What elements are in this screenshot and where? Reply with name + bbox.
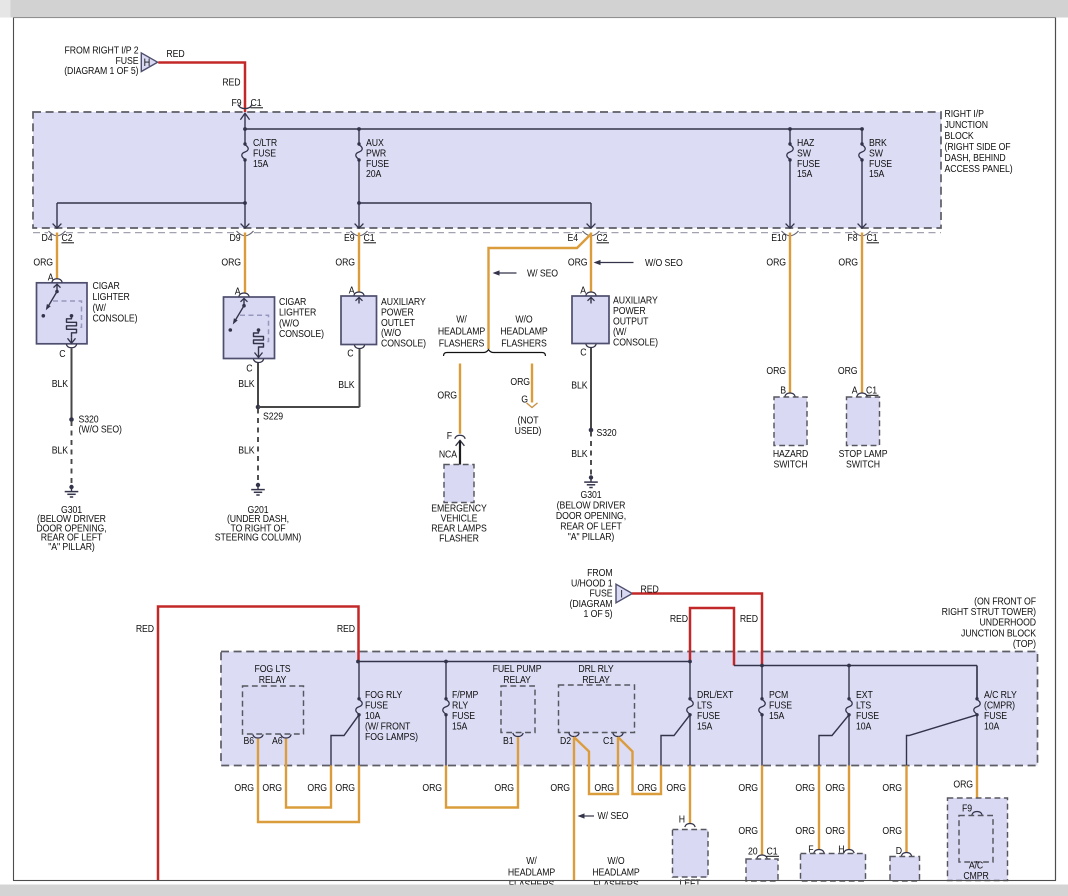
svg-text:SWITCH: SWITCH (774, 459, 808, 471)
svg-text:ORG: ORG (825, 825, 845, 837)
svg-text:C: C (246, 363, 252, 375)
svg-text:D2: D2 (560, 735, 571, 747)
svg-text:FLASHERS: FLASHERS (439, 338, 484, 350)
svg-text:ORG: ORG (437, 390, 457, 402)
svg-text:B1: B1 (503, 735, 514, 747)
svg-text:ORG: ORG (307, 782, 327, 794)
svg-text:S229: S229 (263, 411, 283, 423)
svg-text:15A: 15A (697, 721, 713, 733)
svg-text:HEADLAMP: HEADLAMP (438, 326, 485, 338)
svg-text:"A" PILLAR): "A" PILLAR) (568, 531, 615, 543)
svg-text:FLASHERS: FLASHERS (501, 338, 546, 350)
svg-text:I: I (620, 589, 622, 601)
svg-text:W/: W/ (526, 855, 537, 867)
svg-text:BLK: BLK (571, 380, 588, 392)
svg-text:S320: S320 (597, 427, 617, 439)
svg-text:10A: 10A (984, 721, 1000, 733)
svg-text:E10: E10 (771, 232, 786, 244)
svg-text:HEADLAMP: HEADLAMP (500, 326, 547, 338)
svg-text:H: H (679, 814, 685, 826)
svg-text:USED): USED) (515, 425, 542, 437)
svg-text:ORG: ORG (838, 257, 858, 269)
svg-text:CONSOLE): CONSOLE) (381, 338, 426, 350)
svg-text:ORG: ORG (594, 782, 614, 794)
svg-text:CONSOLE): CONSOLE) (613, 337, 658, 349)
svg-text:15A: 15A (253, 158, 269, 170)
svg-text:ORG: ORG (510, 376, 530, 388)
svg-text:20: 20 (748, 846, 758, 858)
svg-text:SWITCH: SWITCH (846, 459, 880, 471)
svg-text:ORG: ORG (795, 782, 815, 794)
svg-text:CONSOLE): CONSOLE) (279, 329, 324, 341)
svg-text:BLK: BLK (52, 445, 69, 457)
svg-text:ORG: ORG (550, 782, 570, 794)
svg-text:15A: 15A (452, 721, 468, 733)
svg-text:1 OF 5): 1 OF 5) (584, 609, 613, 621)
svg-text:ORG: ORG (335, 257, 355, 269)
svg-text:ORG: ORG (234, 782, 254, 794)
svg-text:W/ SEO: W/ SEO (598, 810, 629, 822)
svg-text:W/O: W/O (515, 314, 532, 326)
svg-text:H: H (144, 57, 151, 69)
svg-text:F8: F8 (847, 232, 857, 244)
svg-text:FOG LAMPS): FOG LAMPS) (365, 731, 418, 743)
svg-text:RED: RED (740, 613, 758, 625)
svg-text:ORG: ORG (882, 782, 902, 794)
svg-text:RED: RED (136, 623, 154, 635)
svg-text:(TOP): (TOP) (1013, 638, 1036, 650)
svg-text:NCA: NCA (439, 449, 458, 461)
svg-text:D4: D4 (41, 232, 53, 244)
svg-text:B6: B6 (244, 735, 255, 747)
svg-text:ORG: ORG (637, 782, 657, 794)
svg-text:ORG: ORG (568, 257, 588, 269)
svg-text:ORG: ORG (738, 825, 758, 837)
svg-text:W/ SEO: W/ SEO (527, 268, 558, 280)
svg-text:A6: A6 (272, 735, 283, 747)
svg-text:A: A (235, 286, 241, 298)
svg-text:BLK: BLK (238, 445, 255, 457)
svg-text:ORG: ORG (838, 365, 858, 377)
svg-text:"A" PILLAR): "A" PILLAR) (48, 541, 95, 553)
svg-text:RELAY: RELAY (582, 674, 610, 686)
svg-text:ORG: ORG (953, 779, 973, 791)
svg-text:BLK: BLK (338, 379, 355, 391)
svg-text:RELAY: RELAY (503, 674, 531, 686)
svg-text:W/O: W/O (607, 855, 624, 867)
svg-text:CONSOLE): CONSOLE) (93, 313, 138, 325)
svg-text:C: C (580, 347, 586, 359)
svg-text:15A: 15A (769, 710, 785, 722)
svg-text:HEADLAMP: HEADLAMP (592, 867, 639, 879)
svg-text:15A: 15A (869, 169, 885, 181)
svg-text:ORG: ORG (494, 782, 514, 794)
svg-text:ORG: ORG (262, 782, 282, 794)
svg-text:ORG: ORG (666, 782, 686, 794)
svg-text:15A: 15A (797, 169, 813, 181)
svg-text:F9: F9 (962, 803, 972, 815)
svg-text:C: C (347, 348, 353, 360)
svg-text:RED: RED (670, 613, 688, 625)
svg-text:ORG: ORG (795, 825, 815, 837)
svg-text:E4: E4 (567, 232, 578, 244)
svg-text:C1: C1 (603, 735, 614, 747)
svg-text:W/O SEO: W/O SEO (645, 257, 683, 269)
svg-text:ACCESS PANEL): ACCESS PANEL) (945, 163, 1013, 175)
svg-text:HEADLAMP: HEADLAMP (508, 867, 555, 879)
svg-text:RED: RED (222, 77, 240, 89)
svg-text:F: F (447, 430, 452, 442)
svg-text:BLK: BLK (238, 378, 255, 390)
svg-text:ORG: ORG (766, 257, 786, 269)
svg-text:ORG: ORG (738, 782, 758, 794)
svg-text:ORG: ORG (825, 782, 845, 794)
svg-text:STEERING COLUMN): STEERING COLUMN) (215, 532, 301, 544)
svg-text:(DIAGRAM 1 OF 5): (DIAGRAM 1 OF 5) (64, 65, 138, 77)
svg-text:FLASHER: FLASHER (439, 533, 479, 545)
svg-text:RED: RED (337, 623, 355, 635)
svg-text:10A: 10A (856, 721, 872, 733)
svg-text:W/: W/ (456, 314, 467, 326)
svg-text:RELAY: RELAY (259, 674, 287, 686)
svg-text:ORG: ORG (335, 782, 355, 794)
svg-text:RED: RED (166, 49, 184, 61)
svg-text:ORG: ORG (766, 365, 786, 377)
svg-text:BLK: BLK (52, 378, 69, 390)
svg-text:ORG: ORG (422, 782, 442, 794)
svg-text:20A: 20A (366, 169, 382, 181)
svg-text:E9: E9 (344, 232, 355, 244)
svg-text:D9: D9 (229, 232, 240, 244)
svg-text:ORG: ORG (33, 257, 53, 269)
svg-text:C: C (59, 348, 65, 360)
svg-text:RED: RED (641, 584, 659, 596)
svg-text:(W/O SEO): (W/O SEO) (79, 424, 122, 436)
svg-text:ORG: ORG (882, 825, 902, 837)
svg-text:ORG: ORG (221, 257, 241, 269)
svg-text:BLK: BLK (571, 448, 588, 460)
